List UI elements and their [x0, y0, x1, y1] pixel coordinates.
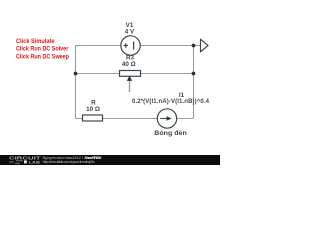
node junction top right [192, 44, 196, 48]
wire top left [76, 45, 122, 47]
svg-text:Bóng đèn: Bóng đèn [154, 130, 187, 137]
wire bottom left [76, 118, 83, 120]
wire R3 right [141, 73, 194, 75]
svg-text:Nguyenducnhan2212 /: Nguyenducnhan2212 / [43, 156, 84, 160]
resistor R [83, 115, 103, 121]
wire left rail [75, 45, 77, 119]
svg-text:40 Ω: 40 Ω [122, 61, 136, 68]
footer bar [0, 155, 220, 165]
wire R3 left [76, 73, 120, 75]
footer logo traces [9, 161, 23, 163]
footer logo C square [24, 160, 27, 163]
svg-text:4 V: 4 V [125, 28, 135, 35]
svg-text:Click Simulate: Click Simulate [16, 38, 55, 45]
wire right rail [193, 45, 195, 119]
node junction left [74, 72, 78, 76]
svg-text:LAB: LAB [29, 160, 41, 164]
svg-text:10 Ω: 10 Ω [86, 106, 100, 113]
current source I1 [157, 109, 176, 128]
annotation arrow at R3 [127, 76, 132, 92]
svg-text:http://circuitlab.com/cpuo4rmd: http://circuitlab.com/cpuo4rmdrq03c [43, 160, 96, 164]
output flag [201, 39, 209, 52]
svg-text:Click Run DC Sweep: Click Run DC Sweep [16, 53, 69, 60]
voltage source V1 [121, 36, 140, 55]
wire bottom middle [103, 118, 158, 120]
svg-text:Click Run DC Solver: Click Run DC Solver [16, 46, 69, 53]
node junction mid right [192, 72, 196, 76]
svg-text:Nhan RR802: Nhan RR802 [85, 156, 102, 160]
resistor R3 [120, 71, 141, 77]
wire bottom right [177, 118, 194, 120]
wire top right [140, 45, 201, 47]
svg-text:0.2*(V(I1.nA)-V(I1.nB))^0.4: 0.2*(V(I1.nA)-V(I1.nB))^0.4 [132, 99, 210, 105]
